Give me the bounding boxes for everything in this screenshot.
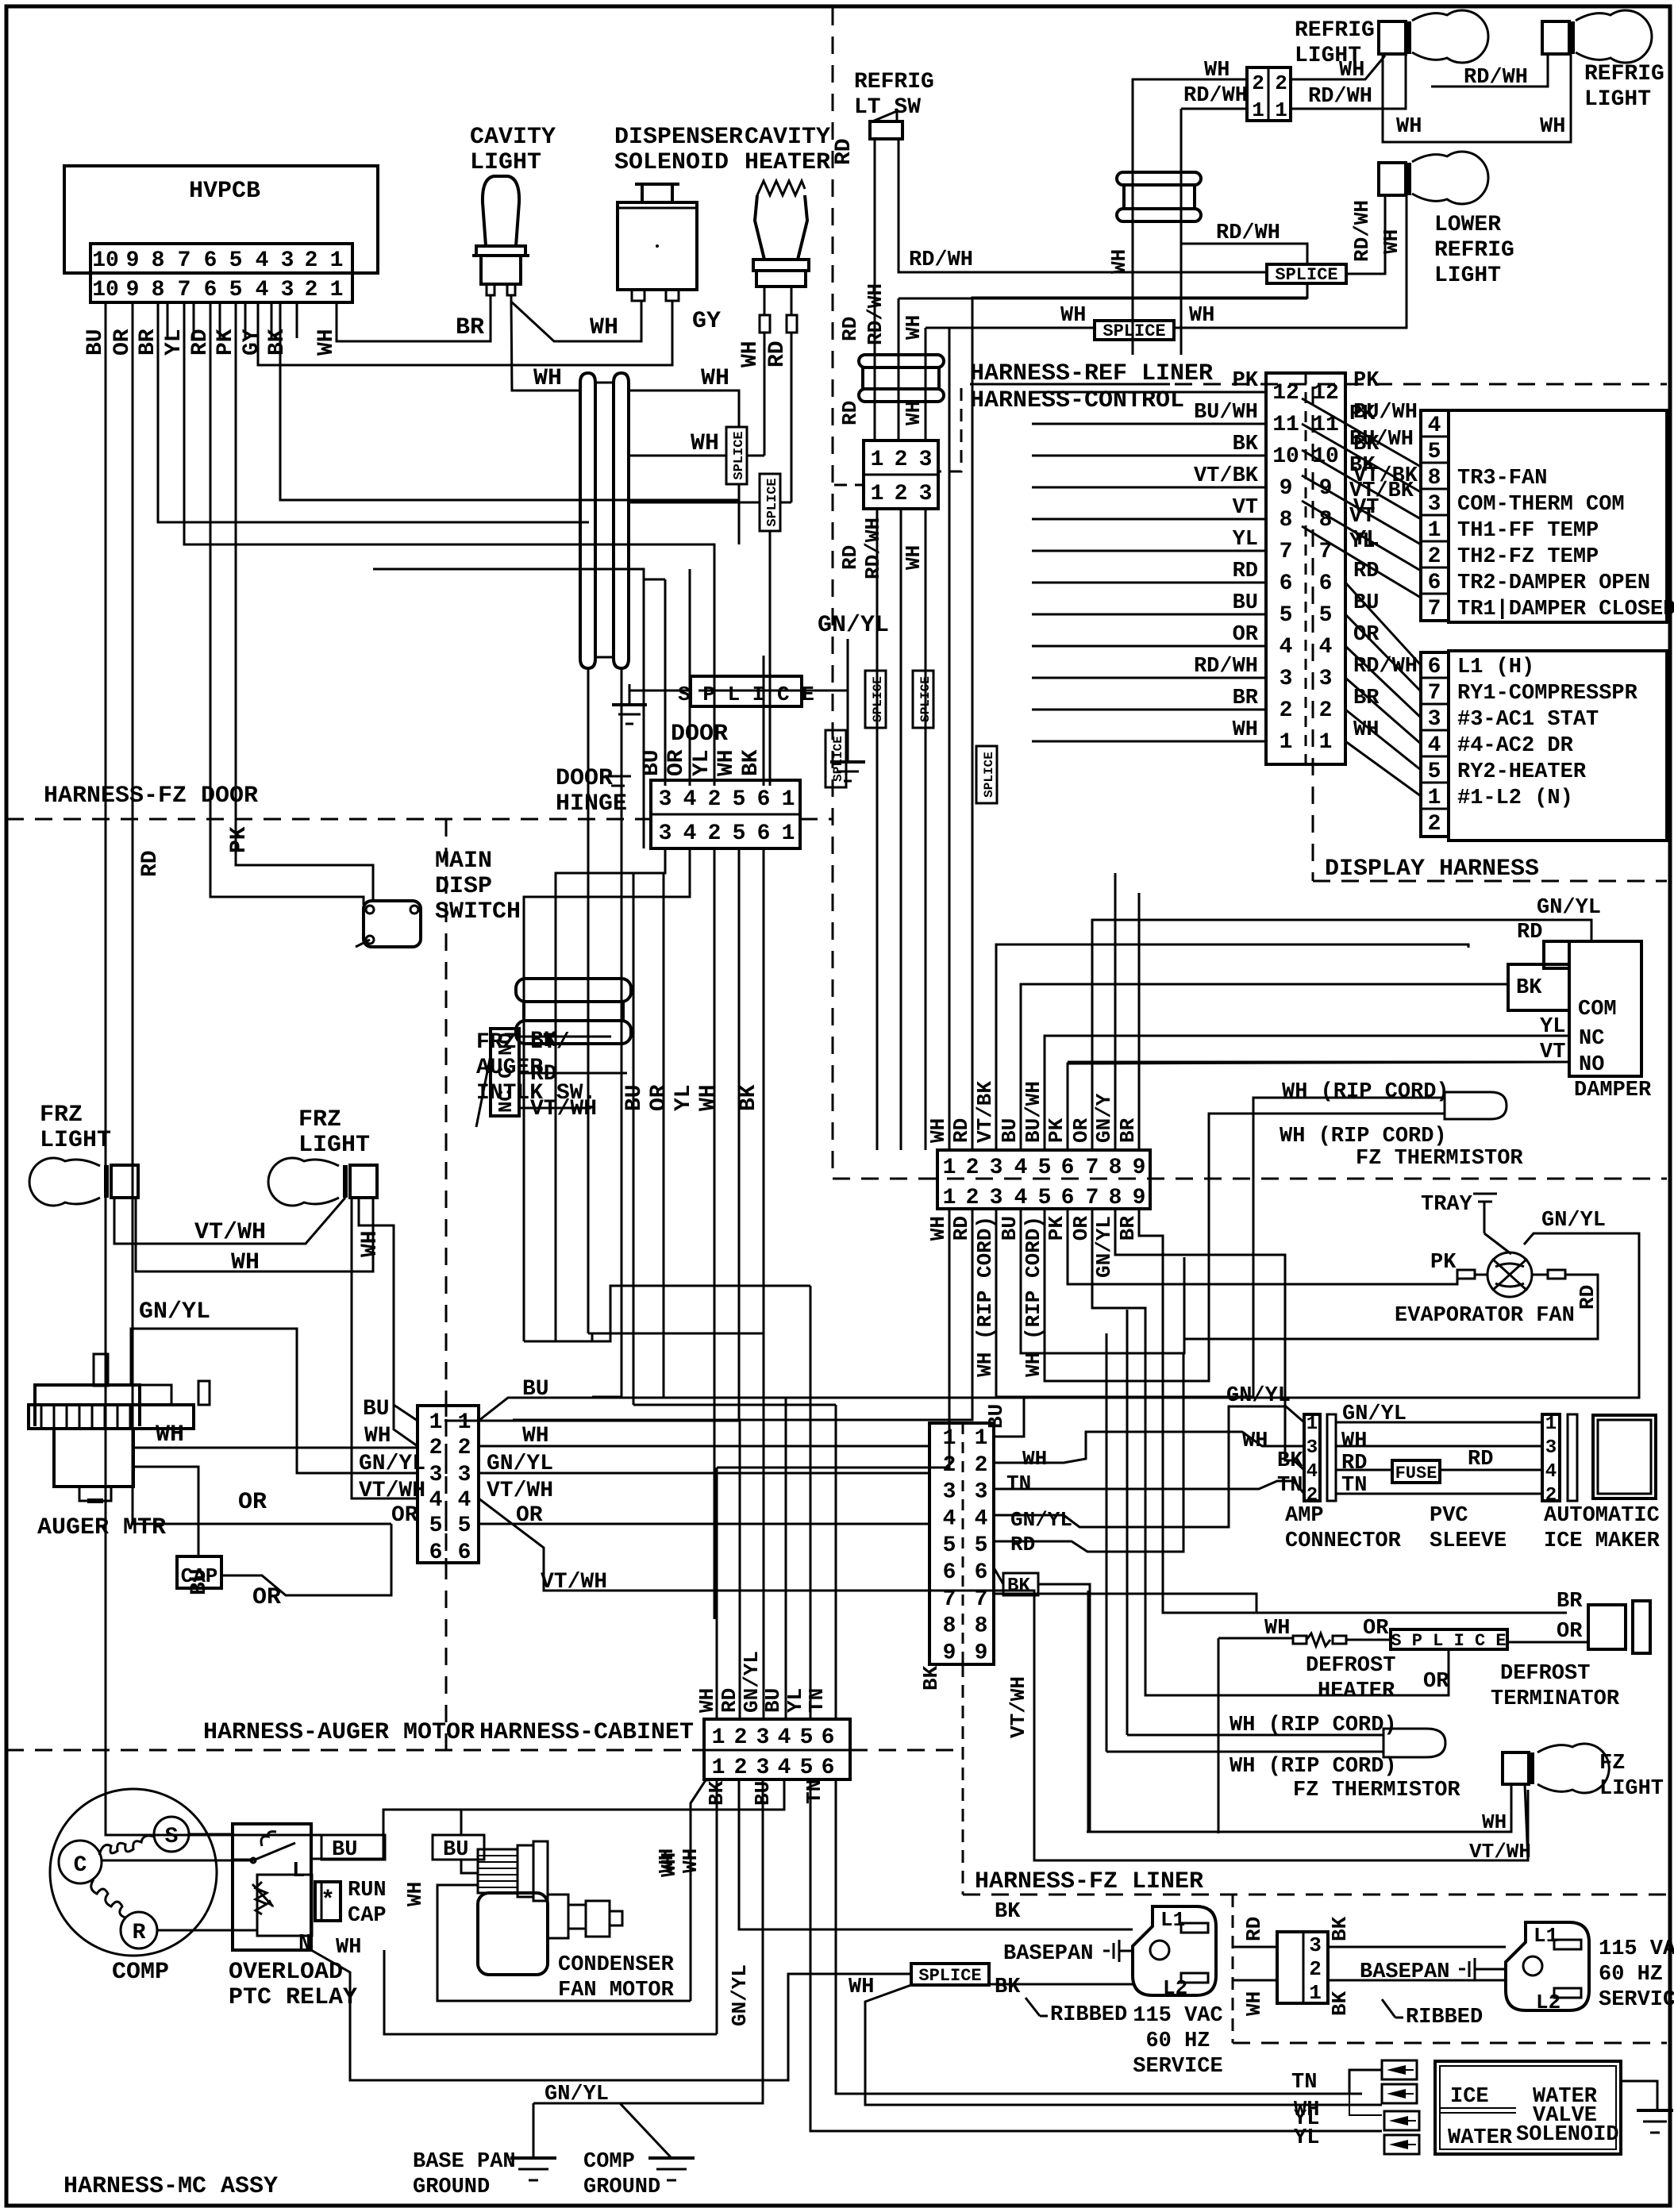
water valve terminal 1: [1382, 2060, 1417, 2079]
svg-text:VT: VT: [1233, 496, 1258, 520]
wire OR HVPCB down to auger: [133, 302, 391, 1524]
svg-text:BU: BU: [1233, 591, 1258, 615]
svg-text:WH: WH: [926, 1216, 950, 1241]
label FZ THERMISTOR: [1356, 1147, 1523, 1171]
label 115 VAC SERVICE 2: [1599, 1937, 1674, 2012]
svg-text:6: 6: [1319, 571, 1333, 596]
svg-text:WH (RIP CORD): WH (RIP CORD): [1282, 1080, 1449, 1104]
svg-text:PK: PK: [214, 329, 238, 356]
section divider dashed H fz-liner bottom: [963, 1894, 1667, 1896]
label RD fan: [1576, 1285, 1599, 1310]
svg-text:BU: BU: [640, 749, 664, 776]
svg-text:PVC: PVC: [1430, 1504, 1468, 1528]
svg-text:VT: VT: [1353, 496, 1379, 520]
svg-text:5: 5: [800, 1756, 814, 1780]
label WH cond2: [679, 1848, 702, 1873]
grommet lower bar2: [516, 1021, 631, 1044]
svg-text:BK: BK: [1328, 1916, 1352, 1941]
svg-text:SERVICE: SERVICE: [1133, 2055, 1222, 2079]
svg-text:1: 1: [1309, 1981, 1322, 2005]
pin numbers cab6 row1: [712, 1725, 835, 1750]
label DISPLAY HARNESS: [1325, 856, 1539, 883]
svg-text:RD: RD: [949, 1216, 973, 1241]
svg-text:SERVICE: SERVICE: [1599, 1988, 1674, 2012]
svg-text:WH: WH: [696, 1084, 721, 1111]
svg-text:CAP: CAP: [348, 1904, 387, 1928]
svg-text:RD/WH: RD/WH: [1183, 84, 1248, 108]
wire WH chevron: [994, 1432, 1304, 1471]
water valve terminal 4: [1384, 2135, 1419, 2154]
svg-text:SPLICE: SPLICE: [732, 431, 747, 479]
wire cavity light right pin down: [511, 302, 581, 390]
label WH splice2l: [1060, 304, 1086, 328]
label RD/WH lamp: [1183, 84, 1248, 108]
svg-text:4: 4: [1428, 414, 1441, 438]
section divider dashed V2 auger/cabinet: [445, 819, 448, 1750]
wire GN/YL auger: [131, 1329, 418, 1473]
label WH pvc: [1341, 1429, 1367, 1453]
svg-text:6: 6: [1061, 1156, 1075, 1180]
svg-text:60 HZ: 60 HZ: [1145, 2029, 1210, 2053]
splice S1: [726, 427, 747, 484]
label EVAPORATOR FAN: [1395, 1304, 1575, 1328]
svg-text:FZ THERMISTOR: FZ THERMISTOR: [1356, 1147, 1523, 1171]
svg-text:COMP: COMP: [583, 2150, 635, 2174]
svg-text:10: 10: [92, 278, 119, 302]
svg-text:OR: OR: [110, 329, 135, 356]
wire labels door hinge top: [640, 749, 764, 776]
wire BK HVPCB to door bundle: [280, 302, 739, 544]
svg-text:VT/BK: VT/BK: [1194, 464, 1259, 488]
label CAVITY HEATER: [745, 124, 830, 176]
label RD rot2: [0, 0, 1, 1]
wire RD/WH lamp left: [1181, 109, 1247, 355]
section divider dashed control elbow: [940, 388, 961, 471]
label WATER left: [1448, 2126, 1513, 2150]
labels into board 12pin: [1194, 369, 1259, 742]
svg-text:GY: GY: [692, 308, 721, 335]
label L1 plug2: [1534, 1924, 1558, 1948]
svg-text:VT/BK: VT/BK: [1353, 464, 1418, 488]
svg-text:BR: BR: [1233, 687, 1259, 710]
svg-text:2: 2: [975, 1453, 988, 1478]
svg-text:VT/WH: VT/WH: [487, 1479, 553, 1503]
label WH left: [364, 1424, 391, 1448]
service loop bridge top: [595, 382, 614, 384]
svg-text:VT/WH: VT/WH: [359, 1479, 425, 1503]
svg-text:FZ: FZ: [1599, 1752, 1625, 1775]
svg-text:WH: WH: [714, 749, 739, 776]
label BU left: [363, 1397, 390, 1421]
label RD damper: [1517, 921, 1542, 944]
svg-text:HARNESS-FZ LINER: HARNESS-FZ LINER: [975, 1868, 1203, 1895]
grommet lower mid: [524, 1002, 623, 1021]
svg-text:DEFROST: DEFROST: [1306, 1654, 1395, 1678]
solenoid stem: [635, 184, 679, 202]
svg-text:LIGHT: LIGHT: [1584, 87, 1651, 112]
svg-text:WH: WH: [1396, 115, 1422, 139]
wire labels below grommet: [838, 401, 926, 425]
svg-text:RD: RD: [1468, 1448, 1493, 1471]
svg-text:BASE PAN: BASE PAN: [413, 2150, 516, 2174]
wire GN/YL pvc: [1336, 1421, 1542, 1424]
lamp FRZ light1 bulb: [29, 1158, 100, 1206]
svg-text:3: 3: [756, 1725, 770, 1750]
svg-text:WH: WH: [926, 1118, 950, 1143]
label ICE: [1450, 2085, 1489, 2109]
wire ctrl pin4 up BU: [1021, 968, 1508, 1150]
damper connector small: [1544, 941, 1569, 968]
svg-text:N: N: [298, 1932, 311, 1956]
service loop bridge bottom: [595, 656, 614, 659]
wire color labels HVPCB: [83, 329, 339, 356]
wire VT/WH frz lights: [114, 1198, 345, 1244]
thermistor FZ bulb: [1445, 1092, 1507, 1119]
label WATER VALVE SOLENOID: [1516, 2085, 1619, 2147]
svg-text:BR: BR: [1353, 687, 1380, 710]
label HARNESS-REF LINER: [970, 360, 1213, 387]
svg-text:BU/WH: BU/WH: [1194, 401, 1258, 425]
svg-text:6: 6: [429, 1541, 443, 1565]
svg-text:PK: PK: [227, 826, 252, 853]
wire ctrl pin5 up: [1045, 1036, 1569, 1150]
label WH splice2r: [1189, 304, 1214, 328]
svg-text:SPLICE: SPLICE: [1103, 321, 1165, 341]
svg-text:LIGHT: LIGHT: [1599, 1777, 1664, 1801]
label WH amp: [1242, 1429, 1268, 1453]
svg-text:RUN: RUN: [348, 1879, 387, 1902]
wire ctrl pin9 up: [1138, 893, 1141, 1150]
heater collar: [753, 260, 809, 287]
wire GN/YL damper: [1313, 920, 1591, 941]
compressor C terminal: [59, 1841, 102, 1883]
svg-text:RD: RD: [1233, 560, 1258, 583]
label BASEPAN 2: [1360, 1958, 1506, 1984]
svg-text:COMP: COMP: [112, 1959, 169, 1986]
svg-text:3: 3: [429, 1463, 443, 1487]
pin numbers board right: [1312, 381, 1339, 755]
svg-text:HEATER: HEATER: [745, 149, 830, 176]
wire labels cab6 top: [695, 1651, 829, 1713]
svg-text:115 VAC: 115 VAC: [1599, 1937, 1674, 1961]
pin numbers display bottom: [1428, 655, 1441, 837]
wire heater right lead: [787, 287, 797, 502]
label WH RIP CORD 1: [1282, 1080, 1449, 1104]
lamp FRZ light2 socket: [345, 1165, 377, 1198]
svg-text:RD: RD: [838, 545, 862, 570]
svg-text:3: 3: [1309, 1933, 1322, 1957]
svg-text:TH1-FF TEMP: TH1-FF TEMP: [1457, 519, 1599, 543]
label WH bulb2: [1540, 115, 1565, 139]
svg-text:BK: BK: [737, 1084, 761, 1111]
svg-text:WH: WH: [358, 1230, 383, 1257]
svg-text:YL: YL: [672, 1084, 696, 1111]
wire BU label rot: [187, 1568, 212, 1595]
connector AMP bar: [1327, 1414, 1336, 1501]
svg-text:3: 3: [943, 1480, 956, 1505]
svg-text:COM-THERM COM: COM-THERM COM: [1457, 493, 1625, 517]
connector board 12pin: [1266, 373, 1345, 764]
svg-text:GN/YL: GN/YL: [545, 2083, 609, 2106]
svg-text:2: 2: [305, 278, 318, 302]
svg-text:9: 9: [1280, 476, 1293, 501]
wire h 1620: [556, 1286, 810, 1341]
label GN/YL right: [487, 1452, 553, 1476]
wire field h 1761b: [664, 1397, 786, 1399]
splice S9: [1095, 321, 1174, 341]
connector display P8 cells: [1421, 410, 1449, 621]
svg-text:9: 9: [126, 278, 140, 302]
wire BK intlk: [519, 1036, 611, 1038]
svg-text:GN/YL: GN/YL: [1537, 896, 1601, 920]
svg-text:8: 8: [152, 248, 165, 273]
svg-text:#1-L2 (N): #1-L2 (N): [1457, 787, 1573, 810]
wire PK HVPCB to disp switch: [236, 302, 373, 901]
label N relay: [298, 1932, 311, 1956]
label TN amp: [1277, 1474, 1303, 1498]
svg-text:6: 6: [822, 1725, 835, 1750]
label OR defrost: [1363, 1617, 1389, 1641]
wire BR HVPCB to loop: [158, 302, 589, 522]
pin numbers auger 6pin left: [429, 1410, 443, 1565]
svg-text:4: 4: [683, 821, 697, 846]
svg-text:VT/WH: VT/WH: [1469, 1840, 1531, 1864]
label WH lamp: [1204, 59, 1230, 83]
label GN/YL amp: [1226, 1384, 1291, 1408]
pin numbers cab9 left: [943, 1426, 956, 1665]
svg-text:S: S: [165, 1825, 179, 1849]
wire WH below hinge: [738, 848, 741, 1421]
svg-text:GN/YL: GN/YL: [1092, 1216, 1116, 1278]
svg-text:2: 2: [1306, 1485, 1318, 1506]
svg-text:WH: WH: [1060, 304, 1086, 328]
svg-text:4: 4: [429, 1488, 443, 1513]
label L2 plug2: [1536, 1991, 1560, 2014]
ground base pan: [510, 2158, 556, 2180]
pin numbers alt: [1309, 1933, 1322, 2005]
wire grid v 746: [588, 1333, 592, 1335]
wire labels below conn: [838, 517, 926, 579]
label YL damper: [1540, 1015, 1565, 1039]
svg-text:10: 10: [1272, 444, 1299, 469]
plug2 ground hole: [1523, 1956, 1542, 1975]
section divider dashed display-harness left: [1312, 387, 1314, 881]
svg-text:BR: BR: [456, 314, 484, 341]
label WH right: [522, 1424, 549, 1448]
svg-text:9: 9: [943, 1641, 956, 1665]
label WH RIP CORD 2: [1280, 1125, 1447, 1148]
wire WH pvc: [1336, 1445, 1542, 1448]
wire GN/YL down to ground2: [847, 691, 849, 762]
wire TN chevron: [994, 1471, 1304, 1495]
svg-text:BK: BK: [1353, 433, 1380, 456]
wire grid v long1: [591, 1341, 594, 1343]
svg-text:TR3-FAN: TR3-FAN: [1457, 467, 1547, 490]
label NC: [1579, 1027, 1604, 1051]
svg-text:VT/WH: VT/WH: [194, 1219, 266, 1246]
lamp cavity light bulb: [483, 176, 519, 246]
svg-text:7: 7: [943, 1587, 956, 1612]
svg-text:WH (RIP CORD): WH (RIP CORD): [1280, 1125, 1447, 1148]
label OR defrost2: [1423, 1670, 1449, 1694]
heater element zigzag: [757, 181, 805, 195]
svg-text:GN/YL: GN/YL: [1010, 1508, 1072, 1532]
svg-text:1: 1: [712, 1725, 725, 1750]
label OR right: [516, 1503, 543, 1528]
svg-text:DAMPER: DAMPER: [1574, 1079, 1652, 1102]
pin numbers AMP: [1306, 1414, 1318, 1506]
svg-text:BU: BU: [761, 1688, 785, 1713]
svg-text:RD/WH: RD/WH: [1353, 655, 1418, 679]
svg-text:RD/WH: RD/WH: [1194, 655, 1258, 679]
label BK damper: [1516, 976, 1542, 1000]
wire RD/WH pin2: [899, 298, 1307, 440]
svg-text:BASEPAN: BASEPAN: [1360, 1960, 1449, 1984]
svg-text:FRZ: FRZ: [298, 1106, 341, 1133]
label WH dispenser: [590, 314, 618, 341]
svg-text:NO: NO: [1579, 1053, 1604, 1077]
label NO: [1579, 1053, 1604, 1077]
svg-text:7: 7: [178, 248, 191, 273]
label ladder ticks: [167, 302, 297, 338]
wire GN/YL fan: [786, 1233, 1639, 1398]
label WH splice1 top: [701, 365, 729, 392]
svg-text:BR: BR: [136, 329, 160, 356]
svg-text:1: 1: [712, 1756, 725, 1780]
svg-text:5: 5: [1428, 760, 1441, 784]
wire WH into cab9: [921, 1467, 929, 1469]
svg-text:SPLICE: SPLICE: [982, 752, 996, 798]
label TRAY: [1421, 1193, 1473, 1217]
label BK plug1 b: [995, 1975, 1021, 1999]
label BK alt2: [1328, 1991, 1352, 2016]
wire splice to ground: [629, 684, 691, 705]
svg-text:RD: RD: [188, 329, 213, 356]
wire YL damper: [1045, 1035, 1569, 1037]
plug1 L1 slot: [1181, 1923, 1208, 1933]
svg-text:5: 5: [458, 1514, 471, 1538]
svg-text:TR2-DAMPER OPEN: TR2-DAMPER OPEN: [1457, 571, 1650, 595]
wire WH splice1 left to loop: [629, 455, 726, 457]
svg-text:CAVITY: CAVITY: [470, 124, 556, 151]
splice plug1: [911, 1964, 989, 1986]
svg-text:2: 2: [1319, 698, 1333, 723]
svg-text:GN/YL: GN/YL: [728, 1964, 752, 2026]
label NC C NO: [496, 1033, 518, 1113]
svg-text:BU/WH: BU/WH: [1022, 1081, 1045, 1143]
splice S8: [1267, 264, 1346, 285]
svg-text:TN: TN: [805, 1688, 829, 1713]
wire RD fan: [1184, 1275, 1598, 1353]
label TN water: [1291, 2071, 1317, 2095]
svg-text:SOLENOID: SOLENOID: [1516, 2123, 1619, 2147]
svg-text:OR: OR: [391, 1503, 418, 1528]
label HARNESS-CONTROL: [970, 387, 1184, 414]
svg-text:WH: WH: [590, 314, 618, 341]
wire RD alt: [1233, 1946, 1277, 1948]
label RIBBED 2: [1406, 2006, 1483, 2029]
svg-text:115 VAC: 115 VAC: [1133, 2004, 1222, 2028]
wire RD switch down: [874, 139, 876, 440]
lamp FRZ light1 socket: [106, 1165, 138, 1198]
svg-text:BK: BK: [739, 749, 764, 776]
label RD/WH bulbs: [1464, 66, 1528, 90]
pin numbers door hinge row2: [659, 821, 795, 846]
svg-text:BR: BR: [1557, 1590, 1583, 1614]
wire tray to fan: [1484, 1233, 1511, 1254]
wire BU condenser tap: [461, 1810, 478, 1873]
icemaker box: [1593, 1415, 1656, 1498]
ground water valve: [1637, 2110, 1673, 2133]
wire WHRIP pin5 down: [1045, 1114, 1445, 1381]
pin numbers lamp conn: [1252, 71, 1287, 122]
splice S2: [760, 474, 780, 531]
wire splice diag: [865, 1985, 1382, 2105]
svg-text:LIGHT: LIGHT: [470, 149, 541, 176]
label YL water: [1294, 2107, 1319, 2131]
wire labels ctrl top: [926, 1081, 1140, 1143]
wire WH relay N: [311, 1950, 911, 2080]
wire OR auger cap: [133, 1467, 198, 1556]
wire WH cab pin1 diag: [691, 1779, 718, 2001]
label GN/YL left: [359, 1452, 425, 1476]
label WH defrost: [1264, 1617, 1290, 1641]
label DOOR: [671, 721, 728, 748]
svg-text:RD/WH: RD/WH: [864, 283, 887, 345]
wire cavity light right pin diagonal: [511, 295, 641, 341]
svg-text:TN: TN: [1006, 1471, 1031, 1495]
wire WH defrost: [1218, 1638, 1293, 1833]
label OR defrost3: [1557, 1620, 1583, 1644]
wire field v a: [663, 873, 665, 1398]
label CAVITY LIGHT: [470, 124, 556, 176]
svg-text:1: 1: [1306, 1414, 1318, 1435]
svg-text:1: 1: [943, 1426, 956, 1451]
section divider dashed H2 mc-assy top a: [6, 1749, 704, 1752]
svg-text:10: 10: [92, 248, 119, 273]
label WH RIP CORD 3: [1230, 1714, 1397, 1737]
label OVERLOAD PTC RELAY: [229, 1959, 357, 2011]
svg-text:RD/WH: RD/WH: [1350, 200, 1374, 262]
svg-text:WH: WH: [695, 1688, 719, 1713]
pin numbers cab9 right: [975, 1426, 988, 1665]
svg-text:5: 5: [429, 1514, 443, 1538]
svg-text:OR: OR: [238, 1489, 267, 1516]
labels display bottom: [1457, 656, 1638, 810]
label AMP CONNECTOR: [1285, 1504, 1402, 1553]
svg-text:PK: PK: [1353, 369, 1380, 393]
svg-text:3: 3: [990, 1186, 1003, 1210]
svg-text:3: 3: [1319, 667, 1333, 691]
lamp refrig2 bulb: [1576, 10, 1652, 63]
svg-text:SOLENOID: SOLENOID: [614, 149, 729, 176]
svg-text:1: 1: [1319, 730, 1333, 755]
svg-text:SPLICE: SPLICE: [1275, 265, 1337, 285]
wire GN/YL cab: [763, 1333, 765, 1719]
wire VT/WH pin4 right: [479, 1498, 1528, 1860]
connector door hinge: [651, 780, 800, 848]
svg-text:DEFROST: DEFROST: [1500, 1662, 1590, 1686]
wire WH pin1 down: [716, 1779, 718, 2034]
svg-text:GN/YL: GN/YL: [818, 612, 889, 639]
svg-text:PK: PK: [1430, 1251, 1457, 1275]
wire RD chevron: [994, 1353, 1183, 1556]
svg-text:RIBBED: RIBBED: [1050, 2003, 1127, 2027]
wire GY solenoid to HVPCB pin4: [258, 301, 672, 365]
ribbed tick2: [1382, 1999, 1403, 2018]
svg-text:60 HZ: 60 HZ: [1599, 1963, 1663, 1987]
svg-text:4: 4: [458, 1488, 471, 1513]
